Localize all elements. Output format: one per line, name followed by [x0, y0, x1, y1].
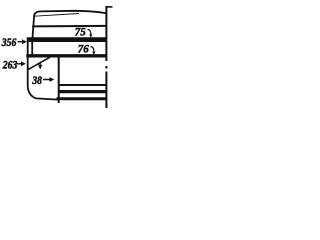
svg-text:263: 263	[2, 59, 18, 71]
svg-text:75: 75	[75, 26, 86, 38]
svg-text:76: 76	[78, 43, 89, 55]
svg-text:38: 38	[31, 75, 42, 87]
svg-text:356: 356	[1, 36, 17, 49]
